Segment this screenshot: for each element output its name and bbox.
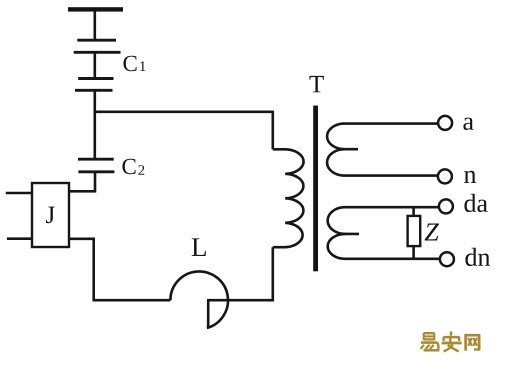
capacitor C1 lower element plate 1	[78, 77, 113, 80]
label da	[464, 194, 487, 212]
inductor L notch vertical	[207, 300, 210, 328]
watermark glyph yi	[421, 333, 440, 350]
terminal n	[438, 169, 452, 183]
capacitor C1 lower element plate 2	[75, 89, 113, 92]
wire C2 to J junction	[94, 173, 97, 191]
terminal da	[439, 199, 453, 213]
label C1	[123, 56, 145, 71]
node: branch junction to transformer loop	[94, 111, 273, 114]
wire: loop right side lower	[271, 247, 274, 301]
label n	[464, 171, 476, 183]
label T	[309, 76, 323, 92]
watermark yianwang	[421, 331, 481, 351]
wire C1 to C2	[94, 92, 97, 159]
label dn	[465, 248, 490, 266]
transformer secondary winding 1 lower half and lead n	[327, 149, 438, 175]
label L	[192, 238, 206, 256]
wire Z branch vertical	[412, 207, 415, 259]
wire busbar to C1	[94, 11, 97, 39]
wire J lower left lead	[7, 237, 32, 240]
wire between C1 sections	[94, 54, 97, 78]
capacitor C1 upper element plate 1	[77, 39, 116, 42]
top busbar	[68, 7, 123, 11]
capacitor C2 plate 2	[78, 170, 114, 173]
label Z	[425, 223, 439, 240]
transformer secondary winding 1 upper half and lead a	[327, 124, 438, 150]
wire J upper left lead	[6, 192, 32, 195]
terminal a	[438, 116, 452, 130]
transformer secondary winding 2 lower half and lead dn	[328, 234, 440, 259]
wire bottom rail left	[93, 299, 171, 302]
label C2	[122, 159, 144, 175]
transformer T core	[313, 106, 318, 272]
watermark glyph wang	[465, 334, 481, 350]
capacitor C1 upper element plate 2	[74, 51, 121, 54]
wire: loop right side upper	[271, 111, 274, 150]
watermark glyph an	[442, 331, 462, 351]
capacitor C2 plate 1	[78, 158, 114, 161]
wire junction to J box	[69, 190, 97, 193]
impedance box Z	[408, 216, 421, 246]
wire bottom rail right	[207, 299, 274, 302]
label a	[463, 118, 473, 130]
label J	[46, 207, 55, 224]
transformer secondary winding 2 upper half and lead da	[328, 207, 439, 234]
transformer T primary winding	[273, 149, 304, 247]
relay box J	[32, 183, 69, 247]
inductor L arc	[170, 271, 228, 328]
wire J to bottom rail	[69, 239, 94, 300]
terminal dn	[440, 252, 454, 266]
